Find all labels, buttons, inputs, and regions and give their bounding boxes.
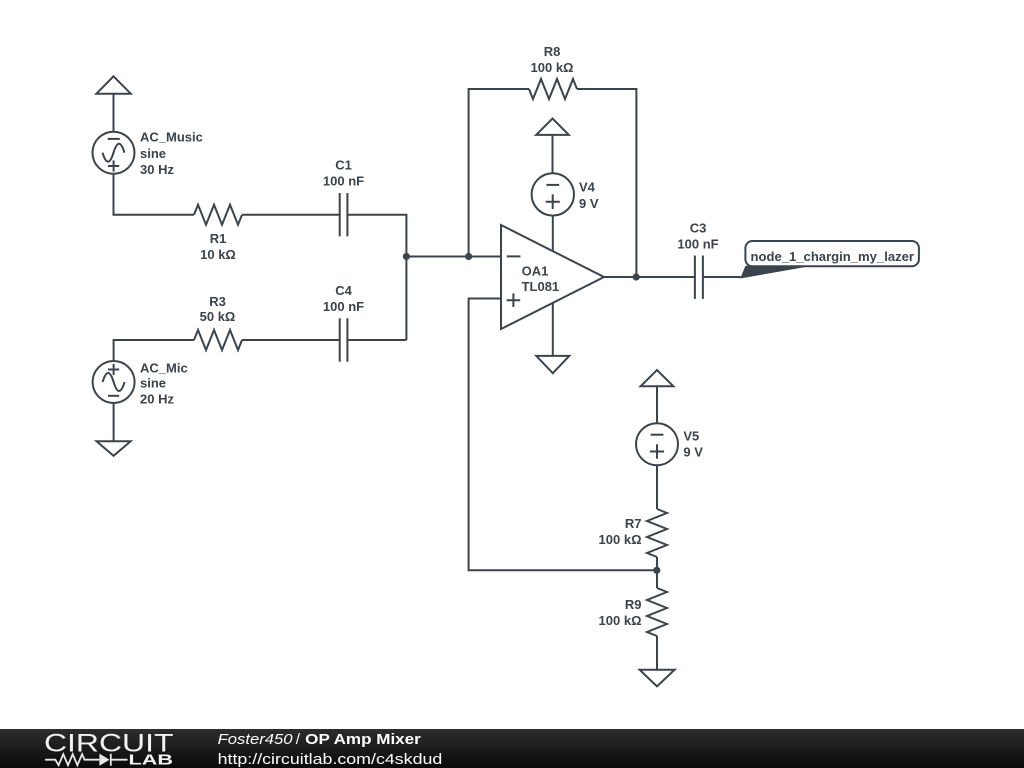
svg-text:100 kΩ: 100 kΩ <box>531 60 574 75</box>
svg-text:R3: R3 <box>209 294 226 309</box>
svg-text:10 kΩ: 10 kΩ <box>200 247 236 262</box>
svg-text:100 nF: 100 nF <box>323 174 364 189</box>
svg-text:sine: sine <box>140 146 166 161</box>
svg-text:http://circuitlab.com/c4skdud: http://circuitlab.com/c4skdud <box>218 751 443 768</box>
svg-text:OA1: OA1 <box>522 264 549 279</box>
svg-text:C4: C4 <box>335 283 352 298</box>
svg-text:R1: R1 <box>210 231 227 246</box>
svg-text:sine: sine <box>140 376 166 391</box>
svg-text:V5: V5 <box>683 429 699 444</box>
svg-text:R7: R7 <box>625 516 642 531</box>
svg-text:C3: C3 <box>690 220 707 235</box>
svg-text:100 nF: 100 nF <box>323 299 364 314</box>
svg-text:30 Hz: 30 Hz <box>140 162 174 177</box>
svg-text:20 Hz: 20 Hz <box>140 391 174 406</box>
svg-text:node_1_chargin_my_lazer: node_1_chargin_my_lazer <box>751 249 915 264</box>
svg-text:C1: C1 <box>335 158 352 173</box>
svg-text:9 V: 9 V <box>683 445 703 460</box>
svg-text:100 nF: 100 nF <box>677 236 718 251</box>
svg-text:V4: V4 <box>579 179 596 194</box>
svg-text:AC_Music: AC_Music <box>140 130 203 145</box>
svg-text:Foster450: Foster450 <box>218 731 293 748</box>
svg-text:100 kΩ: 100 kΩ <box>599 613 642 628</box>
svg-text:R9: R9 <box>625 597 642 612</box>
svg-text:R8: R8 <box>544 44 561 59</box>
svg-text:9 V: 9 V <box>579 196 599 211</box>
svg-text:TL081: TL081 <box>522 279 560 294</box>
svg-text:AC_Mic: AC_Mic <box>140 360 188 375</box>
svg-text:100 kΩ: 100 kΩ <box>599 532 642 547</box>
svg-text:50 kΩ: 50 kΩ <box>200 309 236 324</box>
svg-text:LAB: LAB <box>129 753 174 768</box>
svg-text:OP Amp Mixer: OP Amp Mixer <box>305 731 421 748</box>
